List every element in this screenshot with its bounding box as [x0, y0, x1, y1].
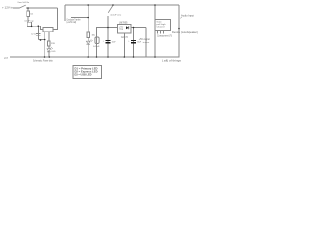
wire right drop x179 — [178, 5, 180, 57]
wire LED to ground — [48, 52, 50, 57]
wire LED branch x88 — [87, 5, 89, 32]
wire R1 bottom lead — [27, 17, 29, 23]
junction dots — [27, 4, 180, 58]
capacitor C1 body — [95, 37, 99, 44]
wire U3 left down to ground — [154, 31, 156, 58]
LED D2 — [86, 41, 90, 44]
wire x109 branch — [107, 16, 109, 57]
wire right box top feed — [154, 5, 156, 20]
capacitor C2 electrolytic — [105, 41, 110, 43]
wire branch x38.3 — [37, 26, 39, 39]
wire stub x65 — [64, 5, 66, 21]
wire box1 right pin — [53, 29, 58, 31]
svg-text:C2 1u: C2 1u — [31, 34, 37, 36]
resistor R2 — [48, 41, 51, 46]
svg-text:LED: LED — [52, 51, 56, 53]
svg-text:Device (Loudspeaker): Device (Loudspeaker) — [172, 31, 198, 34]
box U3 module — [155, 20, 171, 31]
resistor R3 — [87, 32, 90, 38]
wire R3 to LED2 — [87, 38, 89, 42]
svg-text:0.1uF cap: 0.1uF cap — [25, 21, 35, 23]
svg-text:10uF: 10uF — [112, 42, 116, 44]
legend box — [73, 66, 102, 79]
svg-text:Audio Input: Audio Input — [181, 15, 194, 18]
wire U1 output — [131, 27, 146, 29]
box U2 relay — [43, 28, 53, 32]
wire U1 gnd pin — [123, 33, 125, 57]
svg-text:(gnd): (gnd) — [121, 36, 128, 38]
svg-text:D1 = Primary LED: D1 = Primary LED — [75, 67, 98, 70]
resistor R1 — [27, 11, 30, 17]
svg-text:Schematic: Power distr.: Schematic: Power distr. — [33, 59, 53, 62]
wire drop x57.5 — [53, 8, 58, 30]
svg-text:(.all) of things: (.all) of things — [162, 60, 182, 63]
svg-text:D3 = USB LED: D3 = USB LED — [75, 74, 92, 77]
switch S1 blade — [20, 5, 26, 8]
wire jog y39.5 — [38, 39, 44, 41]
wire input lead — [13, 7, 20, 9]
wire x134 branch — [133, 28, 135, 58]
wire box1 left pin — [41, 26, 44, 29]
wire leader conductor — [71, 17, 88, 19]
labels — [2, 1, 198, 77]
arrow tick audio — [180, 17, 182, 18]
wire box1 bottom pin x48.8 — [48, 32, 50, 41]
wire U3 pins — [157, 31, 159, 34]
wire box1 pin to ground x44.7 — [44, 32, 46, 57]
wire top rail y5 — [65, 4, 179, 6]
capacitor C2 plates on x38.3 — [36, 33, 41, 35]
wire cap to corner — [32, 25, 41, 27]
svg-text:10uF: 10uF — [137, 42, 141, 44]
svg-text:(+12V rail): (+12V rail) — [67, 21, 77, 24]
diode in U1 — [126, 26, 129, 29]
svg-text:LM7805: LM7805 — [119, 22, 128, 25]
wire R2 to LED — [48, 46, 50, 49]
svg-text:D2 = Express LED: D2 = Express LED — [75, 71, 98, 74]
capacitor C3 electrolytic — [131, 41, 136, 43]
wire LED2 to ground — [87, 44, 89, 57]
LED D1 — [47, 49, 51, 52]
svg-text:+ 12V in: + 12V in — [2, 7, 14, 10]
svg-text:0.1uF: 0.1uF — [93, 46, 100, 48]
capacitor C4 body — [27, 22, 31, 26]
wire x146 drop — [145, 28, 147, 58]
wire reg input y27.5 — [97, 28, 118, 58]
svg-text:Channel: Channel — [157, 27, 165, 29]
regulator U1 box — [118, 25, 132, 34]
wire R1 top lead — [27, 8, 29, 11]
svg-text:pull high: pull high — [157, 24, 167, 26]
wire left rail y8 — [26, 7, 58, 9]
ground rail — [10, 56, 179, 58]
wire feed slant from rail — [108, 6, 113, 13]
